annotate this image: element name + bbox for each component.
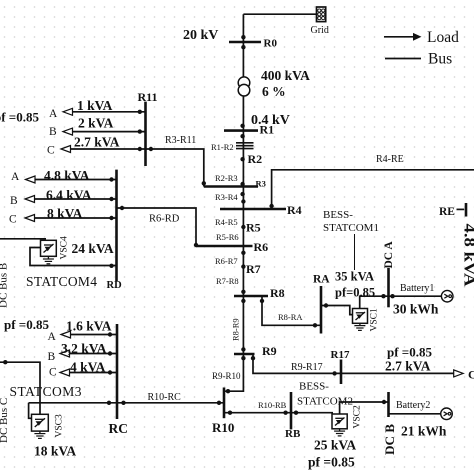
svg-text:3,2 kVA: 3,2 kVA bbox=[61, 341, 107, 356]
svg-text:R4: R4 bbox=[287, 203, 302, 217]
svg-text:1 kVA: 1 kVA bbox=[77, 98, 113, 113]
svg-text:STATCOM1: STATCOM1 bbox=[323, 222, 379, 234]
svg-text:6.4 kVA: 6.4 kVA bbox=[46, 188, 92, 203]
svg-text:Battery1: Battery1 bbox=[400, 283, 434, 294]
svg-text:pf=0.85: pf=0.85 bbox=[335, 286, 375, 300]
svg-text:BESS-: BESS- bbox=[299, 381, 329, 393]
svg-text:A: A bbox=[49, 108, 58, 120]
svg-text:R8-RA: R8-RA bbox=[278, 312, 303, 322]
svg-text:24 kVA: 24 kVA bbox=[72, 241, 114, 256]
svg-text:4.8 kVA: 4.8 kVA bbox=[44, 168, 90, 183]
svg-text:B: B bbox=[48, 351, 56, 363]
svg-text:R3: R3 bbox=[256, 179, 266, 189]
svg-text:25 kVA: 25 kVA bbox=[314, 438, 356, 453]
svg-text:C: C bbox=[49, 367, 57, 379]
svg-text:R2-R3: R2-R3 bbox=[215, 173, 238, 183]
svg-text:C: C bbox=[47, 145, 55, 157]
svg-text:R9-R17: R9-R17 bbox=[291, 362, 323, 373]
svg-text:R11: R11 bbox=[138, 90, 158, 104]
svg-text:R4-R5: R4-R5 bbox=[215, 217, 238, 227]
svg-text:VSC2: VSC2 bbox=[353, 405, 363, 428]
svg-text:2.7 kVA: 2.7 kVA bbox=[74, 135, 120, 150]
svg-text:1.6 kVA: 1.6 kVA bbox=[66, 319, 112, 334]
svg-text:R6-R7: R6-R7 bbox=[215, 256, 238, 266]
svg-text:R3-R11: R3-R11 bbox=[165, 135, 196, 146]
svg-text:pf =0.85: pf =0.85 bbox=[308, 455, 355, 470]
svg-text:R7-R8: R7-R8 bbox=[216, 276, 239, 286]
svg-text:R10-RC: R10-RC bbox=[148, 392, 182, 403]
svg-text:C: C bbox=[9, 214, 17, 226]
svg-text:R9: R9 bbox=[262, 344, 277, 358]
svg-text:DC Bus B: DC Bus B bbox=[0, 263, 10, 308]
svg-text:RB: RB bbox=[285, 428, 301, 440]
svg-text:A: A bbox=[11, 171, 20, 183]
svg-text:Battery2: Battery2 bbox=[396, 400, 430, 411]
svg-text:RA: RA bbox=[313, 274, 330, 286]
svg-text:VSC4: VSC4 bbox=[60, 236, 70, 259]
svg-text:R0: R0 bbox=[264, 38, 278, 50]
svg-text:20 kV: 20 kV bbox=[183, 28, 218, 43]
svg-text:R10: R10 bbox=[212, 420, 234, 435]
svg-text:R8: R8 bbox=[270, 286, 285, 300]
svg-text:R4-RE: R4-RE bbox=[376, 154, 404, 165]
svg-text:RC: RC bbox=[109, 421, 129, 436]
svg-text:pf =0.85: pf =0.85 bbox=[0, 110, 39, 125]
svg-text:B: B bbox=[49, 126, 57, 138]
svg-text:Load: Load bbox=[427, 29, 459, 46]
svg-text:2.7 kVA: 2.7 kVA bbox=[385, 359, 431, 374]
svg-text:R1: R1 bbox=[260, 123, 275, 137]
svg-text:30 kWh: 30 kWh bbox=[393, 302, 439, 317]
svg-text:R5: R5 bbox=[246, 221, 261, 235]
svg-text:4.8 kVA: 4.8 kVA bbox=[461, 224, 474, 288]
svg-text:STATCOM4: STATCOM4 bbox=[26, 274, 97, 289]
svg-text:VSC1: VSC1 bbox=[370, 308, 380, 331]
svg-text:18 kVA: 18 kVA bbox=[34, 444, 76, 459]
svg-text:R6: R6 bbox=[254, 240, 269, 254]
svg-text:A: A bbox=[48, 331, 57, 343]
svg-text:VSC3: VSC3 bbox=[55, 414, 65, 437]
svg-text:R17: R17 bbox=[331, 349, 350, 361]
svg-text:6 %: 6 % bbox=[262, 84, 286, 99]
svg-text:STATCOM3: STATCOM3 bbox=[10, 384, 82, 399]
svg-text:R5-R6: R5-R6 bbox=[216, 232, 239, 242]
svg-text:400 kVA: 400 kVA bbox=[261, 68, 310, 83]
svg-text:R1-R2: R1-R2 bbox=[211, 142, 234, 152]
svg-text:R8-R9: R8-R9 bbox=[231, 318, 241, 341]
svg-text:R9-R10: R9-R10 bbox=[212, 371, 241, 381]
svg-text:R6-RD: R6-RD bbox=[149, 214, 180, 225]
svg-text:DC A: DC A bbox=[383, 241, 395, 269]
svg-text:4 kVA: 4 kVA bbox=[70, 360, 106, 375]
svg-text:R7: R7 bbox=[246, 262, 261, 276]
svg-text:2 kVA: 2 kVA bbox=[78, 116, 114, 131]
svg-text:35 kVA: 35 kVA bbox=[335, 270, 374, 284]
svg-text:DC B: DC B bbox=[382, 424, 397, 455]
svg-text:STATCOM2: STATCOM2 bbox=[297, 396, 353, 408]
svg-text:21 kWh: 21 kWh bbox=[401, 424, 447, 439]
svg-text:BESS-: BESS- bbox=[323, 209, 353, 221]
svg-text:B: B bbox=[10, 195, 18, 207]
svg-text:R2: R2 bbox=[248, 152, 263, 166]
svg-text:pf =0.85: pf =0.85 bbox=[4, 317, 49, 332]
svg-text:8 kVA: 8 kVA bbox=[47, 206, 83, 221]
svg-text:pf =0.85: pf =0.85 bbox=[387, 345, 432, 360]
svg-text:Bus: Bus bbox=[428, 51, 452, 68]
svg-text:DC Bus C: DC Bus C bbox=[0, 398, 10, 443]
svg-text:Grid: Grid bbox=[311, 25, 329, 36]
svg-text:R10-RB: R10-RB bbox=[258, 400, 287, 410]
svg-text:RD: RD bbox=[107, 280, 123, 291]
svg-text:RE: RE bbox=[439, 206, 455, 218]
svg-text:C: C bbox=[468, 368, 474, 382]
svg-text:R3-R4: R3-R4 bbox=[215, 192, 238, 202]
